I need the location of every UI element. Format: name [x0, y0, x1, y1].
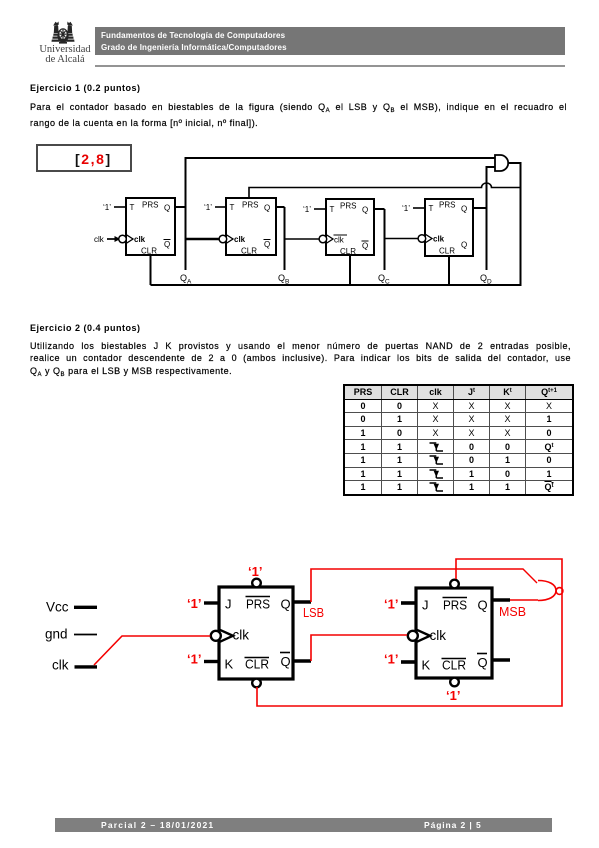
- U1 pin labels: [130, 201, 171, 256]
- svg-text:J: J: [225, 597, 232, 612]
- wire: U2 PRS rail from AND output (hop over QD net): [249, 183, 521, 198]
- svg-text:CLR: CLR: [442, 658, 466, 673]
- UB PRS overline: [443, 597, 468, 599]
- flip-flop UB (JK FF): [416, 588, 492, 678]
- svg-text:clk: clk: [52, 658, 69, 673]
- wire: QA net to U2 clk: [186, 238, 220, 240]
- UA Qbar output stub: [293, 659, 311, 663]
- flip-flop U3 (T FF): [326, 199, 374, 255]
- wire: U3 Q output to node QC: [374, 208, 385, 210]
- svg-text:‘1’: ‘1’: [187, 596, 201, 611]
- wire: U1 CLR stub: [150, 255, 152, 285]
- U3 clk overline (negative clock): [334, 234, 348, 236]
- svg-text:Q: Q: [478, 598, 488, 613]
- UA clk bubble and wedge: [211, 630, 233, 642]
- gray banner: [95, 27, 565, 55]
- gnd supply label: [45, 627, 97, 642]
- answer box: [36, 144, 132, 172]
- UA Q output stub: [293, 600, 311, 604]
- U2 clk inversion bubble and edge wedge: [219, 235, 233, 244]
- UB Qbar output stub: [492, 658, 510, 662]
- UA PRS overline: [246, 596, 271, 598]
- U1 '1' tie-high on T: [103, 203, 126, 212]
- wire: QB net to U3 clk: [285, 238, 320, 240]
- flip-flop U1 (T FF): [126, 198, 175, 255]
- UA CLR overline: [245, 657, 270, 659]
- UB Q output stub: [492, 598, 510, 602]
- Vcc supply label: [46, 600, 97, 615]
- U4 clk inversion bubble and edge wedge: [418, 234, 432, 243]
- svg-text:PRS: PRS: [443, 598, 467, 613]
- svg-text:K: K: [422, 658, 431, 673]
- U2 '1' tie-high on T: [204, 203, 226, 212]
- UB CLR bubble: [450, 678, 459, 687]
- UB J input stub: [401, 601, 416, 605]
- svg-text:PRS: PRS: [246, 597, 270, 612]
- U3 '1' tie-high on T: [303, 205, 326, 214]
- U3 pin labels: [330, 202, 369, 257]
- node QC vertical net: [384, 209, 386, 270]
- UA J input stub: [204, 601, 219, 604]
- red wire: UA Q up and right to UB PRS junction: [311, 569, 456, 602]
- svg-text:MSB: MSB: [499, 604, 526, 619]
- AND gate U5: [495, 155, 508, 171]
- svg-text:J: J: [422, 598, 429, 613]
- UB pin labels: [422, 598, 488, 673]
- wire: U3 CLR stub: [349, 255, 351, 286]
- U4 '1' tie-high on T: [402, 204, 425, 213]
- svg-text:gnd: gnd: [45, 627, 68, 642]
- UA PRS bubble: [252, 579, 261, 588]
- wire: U1 Q output to node QA: [175, 206, 186, 208]
- UA pin labels: [225, 597, 291, 672]
- red wire: UA Qbar to UB clk: [311, 635, 407, 661]
- flip-flop U4 (T FF): [425, 199, 473, 256]
- svg-text:‘1’: ‘1’: [248, 564, 262, 579]
- red wire: junction to NAND input 1: [456, 569, 537, 583]
- university crest logo: [50, 20, 76, 46]
- svg-text:LSB: LSB: [303, 605, 324, 620]
- node QA vertical net + top rail to AND gate: [186, 158, 496, 270]
- svg-text:‘1’: ‘1’: [446, 688, 460, 703]
- UB PRS bubble: [450, 580, 459, 589]
- wire: U2 Q output to node QB: [276, 206, 285, 208]
- wire: U4 Q output to node QD: [473, 207, 487, 209]
- svg-text:clk: clk: [233, 628, 250, 643]
- UA CLR bubble: [252, 679, 261, 688]
- UB clk bubble and wedge: [408, 630, 430, 642]
- svg-text:CLR: CLR: [245, 657, 269, 672]
- node QD vertical net up to AND gate lower input: [487, 167, 496, 270]
- U3 Qbar overline: [362, 240, 369, 242]
- svg-text:Q: Q: [281, 654, 291, 669]
- clk source label: [52, 658, 97, 673]
- svg-text:Vcc: Vcc: [46, 600, 69, 615]
- red wire: feedback loop to UA CLR: [257, 559, 562, 706]
- svg-text:K: K: [225, 657, 234, 672]
- UB K input stub: [401, 660, 416, 664]
- UB Qbar overline: [477, 653, 487, 655]
- flip-flop UA (JK FF): [219, 587, 293, 679]
- red wire: clk source to UA clk: [94, 636, 210, 665]
- U2 Qbar overline: [264, 239, 271, 241]
- U4 pin labels: [429, 201, 468, 256]
- UA Qbar overline: [280, 652, 290, 654]
- wire: AND output to right vertical: [151, 163, 521, 285]
- external clk input with arrowhead: [94, 235, 120, 244]
- UA K input stub: [204, 660, 219, 663]
- JK flip-flop truth table: [343, 384, 574, 496]
- svg-text:‘1’: ‘1’: [187, 652, 201, 667]
- U1 clk inversion bubble and edge wedge: [119, 235, 133, 244]
- NAND gate G1 (red sketch): [538, 581, 556, 601]
- svg-text:‘1’: ‘1’: [384, 597, 398, 612]
- node QB vertical net: [284, 207, 286, 270]
- flip-flop U2 (T FF): [226, 198, 276, 255]
- U1 Qbar overline: [164, 239, 171, 241]
- U2 pin labels: [230, 201, 271, 256]
- NAND output bubble: [556, 588, 563, 595]
- svg-text:‘1’: ‘1’: [384, 652, 398, 667]
- U3 clk inversion bubble and edge wedge: [319, 235, 333, 244]
- svg-text:Q: Q: [281, 597, 291, 612]
- svg-text:Q: Q: [478, 655, 488, 670]
- UB CLR overline: [442, 658, 467, 660]
- red wire: UB Q (MSB) to NAND input 2: [510, 599, 538, 601]
- wire: QC net to U4 clk: [385, 238, 419, 240]
- wire: U4 CLR stub: [448, 256, 450, 286]
